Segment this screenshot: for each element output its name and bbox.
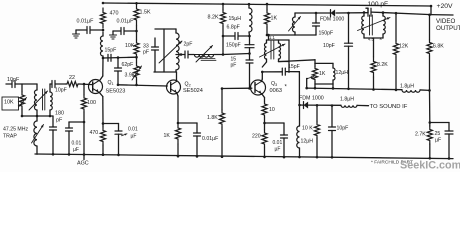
resistor R8 1K emitter — [175, 123, 180, 144]
svg-text:8.2K: 8.2K — [377, 62, 388, 68]
node E — [222, 53, 225, 56]
resistor R18 6.8K video load — [429, 15, 431, 40]
wire Q2 base feed — [118, 85, 167, 86]
transistor Q2 SE5024 — [167, 80, 181, 94]
wire 1K to trap — [266, 27, 268, 35]
svg-text:SE5024: SE5024 — [183, 88, 203, 94]
resistor R20 470 Q1 emitter — [102, 124, 104, 128]
wire Q2 emitter — [177, 93, 178, 96]
svg-text:SeekIC.com: SeekIC.com — [400, 159, 460, 171]
wire Q1 base — [79, 83, 93, 86]
svg-text:µF: µF — [73, 147, 79, 153]
svg-text:6.8pF: 6.8pF — [227, 25, 240, 31]
wire video output corner — [430, 6, 432, 15]
wire box bottom — [315, 83, 333, 85]
transformer T3 stub — [268, 35, 270, 40]
transformer T3 top wire — [267, 39, 290, 41]
svg-text:2.7K: 2.7K — [415, 132, 426, 138]
svg-text:3: 3 — [275, 82, 278, 87]
capacitor C4 0.01uF supply bypass — [91, 29, 104, 31]
resistor R2 22 ohm base — [66, 81, 79, 86]
svg-text:AGC: AGC — [77, 161, 89, 167]
wire input top — [15, 83, 37, 85]
svg-text:pF: pF — [56, 118, 63, 124]
inductor L8 12uH sound shunt — [299, 105, 301, 126]
svg-text:2: 2 — [189, 83, 192, 88]
capacitor C11 6.8pF — [223, 35, 235, 37]
wire winding to collector — [262, 62, 266, 67]
svg-text:FDM 1000: FDM 1000 — [299, 96, 324, 102]
diode D1 FDM1000 video detector — [331, 10, 336, 17]
svg-text:0.01µF: 0.01µF — [202, 136, 218, 142]
inductor L9 1.8uH video peaking — [402, 90, 420, 92]
svg-text:0.01µF: 0.01µF — [77, 19, 95, 25]
arrow T3 slug — [260, 44, 286, 57]
capacitor C14 15pF detector coupling — [281, 68, 283, 75]
arrow L3 slug — [196, 46, 213, 63]
svg-text:1.8µH: 1.8µH — [400, 83, 414, 89]
transformer T4 winding b — [382, 13, 384, 16]
top rail junction dots — [102, 2, 105, 5]
capacitor C18 10pF trap coupling — [348, 13, 350, 43]
svg-text:1.8µH: 1.8µH — [340, 97, 354, 103]
capacitor C16 150pF trap — [315, 13, 317, 23]
resistor R4 470 collector load upper — [100, 8, 105, 28]
svg-text:0063: 0063 — [270, 88, 282, 94]
resistor R7 10K divider lower — [136, 25, 138, 40]
svg-text:0.01µF: 0.01µF — [117, 19, 135, 25]
wire Q3 base — [222, 87, 252, 89]
capacitor C13 15pF to Q3 base — [249, 54, 251, 61]
wire after C19 — [372, 12, 432, 15]
svg-text:TRAP: TRAP — [3, 134, 17, 140]
svg-text:pF: pF — [143, 50, 149, 56]
svg-text:0.01: 0.01 — [128, 126, 138, 132]
wire video bus — [307, 88, 402, 90]
svg-text:6.8K: 6.8K — [433, 44, 444, 50]
svg-text:SE5023: SE5023 — [106, 88, 126, 94]
svg-text:1:1: 1:1 — [269, 35, 275, 40]
arrow tuning slug T1 — [29, 91, 48, 110]
svg-text:25: 25 — [435, 131, 441, 137]
wire top +20V supply rail — [103, 3, 431, 6]
wire trap bottom — [295, 34, 316, 36]
wire Q1 emitter — [99, 92, 103, 96]
wire after D1 — [336, 12, 368, 14]
svg-text:15pF: 15pF — [105, 48, 117, 54]
potentiometer R1 10K AGC bias — [21, 84, 23, 92]
node F emitter network — [264, 117, 266, 123]
wire to 8.2K node — [214, 54, 223, 56]
wire 2.7K top — [429, 90, 431, 122]
wire bottom ground rail — [35, 154, 453, 159]
capacitor C2 180pF trap — [52, 116, 54, 127]
wire to sound terminal — [357, 104, 369, 106]
capacitor C19 100pF detector — [367, 8, 369, 13]
capacitor C7 0.01uF divider bypass — [125, 30, 137, 32]
node G sound takeoff — [298, 104, 301, 107]
svg-text:OUTPUT: OUTPUT — [436, 25, 460, 32]
wire collector to detector — [262, 71, 282, 73]
svg-text:µF: µF — [435, 138, 441, 144]
svg-text:10K: 10K — [4, 100, 14, 106]
transformer T4 sound trap winding a — [363, 12, 365, 16]
resistor R19 2.7K video return — [429, 123, 431, 127]
arrow T2 slug — [159, 41, 182, 63]
resistor R6 1.5K divider upper — [134, 3, 139, 25]
capacitor C1 10pF input coupling — [6, 83, 12, 85]
svg-text:1K: 1K — [271, 16, 278, 22]
svg-text:22: 22 — [69, 75, 75, 81]
inductor L1 47.25MHz trap coil variable — [36, 116, 38, 121]
svg-text:10: 10 — [269, 107, 275, 113]
svg-text:8.2K: 8.2K — [208, 15, 219, 21]
capacitor C3 10pF coupling to Q1 — [50, 83, 52, 85]
capacitor C23 0.01uF AGC filter — [69, 121, 84, 123]
resistor R9 1.8K Q3 base bias — [221, 87, 224, 90]
transformer T3 core — [270, 41, 272, 59]
node B 470 / bypass junction — [102, 29, 105, 32]
inductor L7 1.8uH sound peaking — [341, 105, 357, 107]
wire detector top — [295, 12, 331, 14]
wire emitter bypass — [178, 122, 197, 124]
transformer T2 shield line — [163, 29, 165, 72]
capacitor C21 0.01uF Q1 emitter bypass — [103, 123, 119, 125]
potentiometer R14 1K sound level — [314, 60, 316, 64]
resistor R5 3.9K variable damping — [136, 57, 138, 63]
arrow from 10K box to pot — [19, 98, 27, 108]
svg-text:10pF: 10pF — [55, 88, 67, 94]
svg-text:TO SOUND IF: TO SOUND IF — [370, 104, 408, 110]
capacitor C6 62pF — [117, 58, 119, 68]
svg-text:180: 180 — [55, 111, 64, 117]
svg-text:100 pF: 100 pF — [368, 1, 389, 8]
svg-text:470: 470 — [90, 130, 99, 136]
resistor R12 10 ohm emitter — [262, 102, 267, 117]
transformer T4 core — [369, 15, 371, 35]
svg-text:10 K: 10 K — [302, 126, 313, 132]
capacitor C5 15pF interstage — [107, 54, 109, 61]
capacitor C17 10pF sound bypass — [331, 106, 333, 128]
wire box top — [315, 62, 333, 64]
svg-text:VIDEO: VIDEO — [436, 18, 455, 25]
capacitor C20 25uF — [448, 123, 450, 132]
svg-text:0.01: 0.01 — [273, 140, 283, 146]
wire AGC line down — [83, 112, 85, 160]
node C 62pF tap — [117, 56, 120, 59]
wire T4 bottom — [364, 37, 383, 39]
svg-text:470: 470 — [110, 11, 119, 17]
capacitor C10 0.01uF emitter bypass — [196, 123, 198, 133]
resistor R11 1K from rail — [266, 4, 268, 10]
svg-text:FDM 1000: FDM 1000 — [320, 17, 344, 23]
svg-text:µF: µF — [131, 133, 137, 139]
svg-text:pF: pF — [231, 62, 237, 68]
arrow trap slug — [32, 125, 44, 144]
inductor L4 15uH — [248, 4, 250, 8]
svg-text:150pF: 150pF — [226, 43, 241, 49]
resistor R15 10K sound load — [316, 105, 318, 122]
transformer T1 secondary winding — [49, 84, 51, 92]
svg-text:0.01: 0.01 — [72, 140, 82, 146]
diode D2 FDM1000 sound detector — [300, 104, 304, 106]
svg-text:12µH: 12µH — [301, 139, 314, 145]
wire Q3 collector — [261, 79, 264, 82]
rail junction dots bottom — [68, 153, 71, 156]
transistor Q1 SE5023 — [89, 80, 103, 94]
wire collector output — [103, 56, 137, 59]
svg-text:10pF: 10pF — [323, 43, 335, 49]
ground G2 — [112, 31, 114, 35]
svg-text:47.25 MHz: 47.25 MHz — [3, 127, 28, 133]
transformer T1 primary winding — [36, 84, 38, 90]
svg-text:1.5K: 1.5K — [140, 10, 151, 16]
node AGC rail crossing — [83, 153, 86, 156]
capacitor C9 2pF — [184, 51, 186, 58]
resistor R3 100 ohm AGC feed — [83, 84, 85, 95]
svg-text:*: * — [285, 85, 288, 91]
capacitor C12 150pF — [249, 36, 251, 45]
svg-text:150pF: 150pF — [319, 31, 334, 37]
transformer T2 top wire — [155, 28, 176, 30]
inductor L2 collector choke — [101, 36, 104, 56]
resistor R13 220 emitter lower — [264, 123, 266, 130]
svg-text:12µH: 12µH — [336, 70, 349, 76]
resistor R10 8.2K feed — [222, 4, 224, 10]
svg-text:2pF: 2pF — [184, 42, 193, 48]
inductor L3 interstage variable — [194, 54, 214, 56]
wire T2 secondary to pot box — [279, 60, 316, 62]
inductor L6 12uH — [332, 63, 334, 68]
svg-text:15µH: 15µH — [229, 16, 242, 22]
wire Q1 collector — [102, 56, 104, 58]
wire tap down — [306, 78, 309, 80]
resistor R17 12K — [395, 13, 397, 41]
transformer T3 right side — [288, 40, 290, 72]
wire tank bottom — [22, 115, 53, 117]
arrow 3.9K adjust — [132, 66, 142, 80]
wire 2pF takeoff — [176, 54, 181, 56]
inductor L5 4.5MHz trap coil variable — [294, 13, 296, 17]
svg-text:62pF: 62pF — [122, 62, 134, 68]
wire Q2 collector — [176, 72, 178, 82]
capacitor C15 0.01uF emitter bypass — [265, 122, 285, 124]
wire sound — [308, 104, 341, 106]
svg-text:15pF: 15pF — [288, 64, 300, 70]
wire node E to C12 — [223, 54, 250, 55]
ground G1 — [76, 29, 79, 31]
svg-text:1: 1 — [112, 81, 115, 86]
node D divider mid — [135, 30, 138, 33]
transformer T3 winding a — [266, 40, 268, 43]
arrow T4 slug — [358, 18, 391, 31]
wire Q3 emitter — [262, 94, 265, 98]
svg-text:1K: 1K — [319, 71, 326, 77]
wire T2 bottom — [154, 71, 176, 73]
svg-text:10pF: 10pF — [337, 126, 349, 132]
arrow 1K tap — [308, 77, 314, 79]
svg-text:1K: 1K — [164, 133, 171, 139]
transformer T3 winding b — [278, 40, 280, 43]
svg-text:+20V: +20V — [437, 3, 454, 10]
svg-text:10K: 10K — [125, 43, 135, 49]
svg-text:1.8K: 1.8K — [207, 115, 218, 121]
resistor R16 8.2K video bus feed — [373, 38, 375, 57]
node +20V terminal — [430, 5, 433, 8]
capacitor C8 33pF tank — [154, 38, 156, 47]
svg-text:µF: µF — [275, 146, 281, 152]
svg-text:12K: 12K — [399, 44, 409, 50]
node A Q1 base / AGC — [83, 83, 86, 86]
transformer T1 core — [42, 89, 44, 110]
transistor Q3 0063 — [251, 80, 266, 95]
arrow L5 slug — [289, 17, 301, 32]
wire detector to sound takeoff — [298, 72, 300, 105]
svg-text:100: 100 — [87, 100, 96, 106]
wire C18 down to bus — [348, 46, 350, 89]
transformer T2 winding variable — [175, 29, 177, 33]
svg-text:10pF: 10pF — [7, 77, 20, 83]
svg-text:220: 220 — [252, 134, 261, 140]
